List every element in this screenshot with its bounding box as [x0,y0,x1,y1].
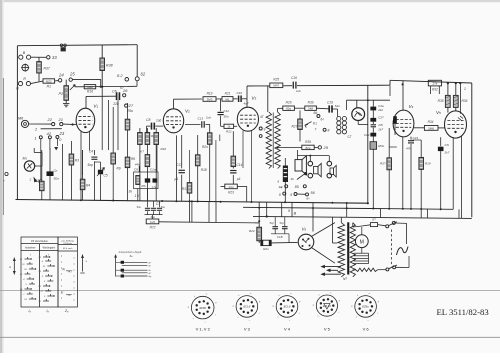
svg-text:R72: R72 [150,226,156,230]
svg-text:R38: R38 [106,64,113,68]
resistor R14 [146,145,148,155]
motor M [355,235,368,248]
wire plate supply line [247,85,270,87]
svg-text:R17: R17 [182,187,188,191]
capacitor C18 wire [271,233,289,235]
svg-text:25: 25 [69,72,75,77]
capacitor C23 [410,137,412,140]
capacitor C4 [93,150,95,155]
wire V5 bottom [452,138,454,209]
svg-text:2k2: 2k2 [377,108,383,112]
svg-text:ECL8: ECL8 [244,305,251,309]
svg-text:R34: R34 [428,120,434,124]
svg-text:1ub: 1ub [206,116,211,120]
resistor R20 [209,124,211,132]
terminal 62 [135,77,139,81]
resistor R8b [125,119,130,130]
svg-text:21: 21 [58,117,63,122]
left edge terminal [5,172,8,175]
pickup head M1 [24,161,34,171]
svg-text:B: B [294,210,297,215]
svg-text:C1B: C1B [277,235,283,239]
svg-text:C16: C16 [291,76,297,80]
svg-text:5cp: 5cp [270,221,275,225]
svg-text:V 1, V 2: V 1, V 2 [196,327,211,332]
arrow symbol right of table [82,255,84,272]
resistor R22 [221,125,224,127]
wire right border [471,83,473,217]
wire V4 bottom left [402,137,404,209]
capacitor C22 [370,133,376,137]
power transformer primary [338,223,345,277]
wire column a [62,144,64,200]
capacitor C8 [147,125,151,127]
svg-text:6<: 6< [307,197,311,201]
svg-text:5: 5 [290,193,292,197]
page rule upper [0,289,500,291]
tube V5 [445,111,467,138]
power transformer secondary [350,223,355,277]
svg-text:5k8: 5k8 [308,107,313,111]
svg-text:Ar: Ar [148,269,151,272]
svg-text:0: 0 [279,193,281,197]
svg-text:4ou: 4ou [151,215,156,219]
svg-text:S?: S? [372,218,376,222]
wire V4 anode up [402,81,404,111]
resistor R32 [428,80,441,86]
wire V1 anode up [85,96,87,108]
wire primary top stub [340,217,342,223]
junction right top [459,82,461,84]
svg-text:1k: 1k [227,125,231,129]
resistor R15 [154,133,159,145]
page rule lower [0,336,500,338]
svg-text:EF86: EF86 [199,306,206,310]
svg-text:ECL8: ECL8 [284,305,291,309]
svg-text:C12: C12 [224,109,230,113]
head diagram lines [122,261,148,263]
svg-text:R39: R39 [305,140,311,144]
resistor R18 [197,135,199,155]
wire V3 bottom [242,131,244,168]
svg-text:V1: V1 [93,103,98,108]
svg-text:52o: 52o [335,104,340,108]
terminal 25 [69,78,72,81]
svg-text:R25: R25 [273,78,279,82]
svg-text:M: M [360,239,364,245]
svg-text:EZ8o: EZ8o [362,305,369,309]
svg-text:R3b: R3b [308,101,314,105]
tube V1 [76,108,95,132]
svg-text:4: 4 [281,185,283,189]
svg-text:5ou: 5ou [137,205,142,209]
svg-text:R37: R37 [44,67,50,71]
capacitor C14 [232,167,234,169]
svg-text:R4: R4 [86,184,90,188]
resistor R37 [38,57,40,61]
resistor R2b [232,131,234,156]
svg-text:27k: 27k [377,123,383,127]
svg-text:C10: C10 [237,91,243,95]
wire R38 column down [101,87,103,150]
svg-text:µ1: µ1 [175,177,179,181]
capacitor C20 [49,148,51,172]
svg-text:A: A [8,265,11,269]
svg-text:47b: 47b [406,146,411,150]
svg-text:9: 9 [288,209,290,213]
terminal 21 [60,123,63,126]
resistor RNo box [370,142,377,150]
ground shield symbol [22,64,29,71]
wire RD to R1 [31,81,43,84]
resistor R33 [420,140,422,157]
svg-text:V6: V6 [302,227,307,232]
svg-text:M1: M1 [225,97,229,101]
svg-text:R22: R22 [226,130,232,134]
svg-text:K1: K1 [313,122,318,126]
svg-text:V 5: V 5 [324,327,331,332]
svg-text:82a: 82a [305,146,310,150]
table contact glyphs [25,258,31,260]
svg-text:8: 8 [328,129,330,133]
svg-text:M6: M6 [18,117,24,121]
bus junction dots [80,199,82,201]
heater winding resistor [356,268,378,271]
wire column c [215,140,217,202]
svg-text:R23: R23 [228,190,234,194]
resistor R4 [82,150,84,175]
svg-text:8.2: 8.2 [117,73,123,78]
svg-text:62: 62 [141,72,146,77]
wire from terminal 27 [108,100,110,150]
svg-text:M47: M47 [273,84,279,88]
mains switch lower [386,268,389,271]
svg-text:µ1: µ1 [237,177,241,181]
capacitor C17 [181,135,183,168]
svg-text:EL 3511/82-83: EL 3511/82-83 [437,307,489,317]
tube socket V1 V2 [191,296,214,319]
resistor R26 [283,106,295,110]
svg-text:V2: V2 [185,108,190,113]
svg-text:M1: M1 [23,157,28,161]
mains switch upper [386,225,389,228]
capacitor C10e [153,178,158,182]
wire drop to terminal 62 [136,45,138,77]
wire bus B [243,207,453,209]
table switch positions [21,237,58,307]
capacitor C19 [328,105,330,112]
tube V2 [163,109,183,133]
terminal 33 [47,56,50,59]
wire V6 to transformer bottom [312,248,335,264]
capacitor C9 [145,178,150,182]
svg-text:R19: R19 [425,162,431,166]
wire main bus [16,200,368,204]
svg-text:82a: 82a [286,107,291,111]
wire V1 grid left [63,123,72,125]
capacitor C9 group box [138,166,140,172]
wire lamp bottom [357,121,359,125]
svg-text:V 6: V 6 [363,327,370,332]
svg-text:25o: 25o [126,109,133,113]
loudspeaker LS2 small [314,166,318,173]
svg-text:7: 7 [315,128,317,132]
resistor R34 [414,127,424,129]
resistor R1 [43,79,55,83]
arrow tap 2 [330,269,339,271]
svg-text:C5: C5 [104,174,108,178]
svg-text:4.19cm/s: 4.19cm/s [63,243,73,245]
svg-text:R27: R27 [292,125,298,129]
potentiometer R27 [299,110,301,118]
resistor R35 [447,83,449,95]
svg-text:22: 22 [47,117,53,122]
terminal 82 [125,78,129,82]
arrow tap 1 [324,266,341,268]
tube V6 rectifier [298,234,314,250]
svg-text:27: 27 [128,103,134,108]
mains cord squiggle [397,247,409,256]
dashed switch link [391,230,393,267]
svg-text:V 4: V 4 [284,327,291,332]
capacitor C12 [220,99,222,111]
resistor chain R19 R21 C15 [203,97,216,102]
svg-text:85: 85 [295,185,299,189]
svg-text:Cp: Cp [54,169,58,173]
resistor R29 [278,146,302,148]
svg-text:R1: R1 [47,85,51,89]
svg-text:1ub: 1ub [156,119,162,123]
svg-text:Wiedergabe: Wiedergabe [43,247,56,250]
resistor R12 [146,219,159,224]
svg-text:29: 29 [323,145,329,150]
tube socket V6 [355,296,377,318]
aerial connector on top line [60,44,63,47]
wire supply drop to bus A corner [367,85,369,203]
svg-text:C6: C6 [112,90,117,94]
svg-text:R2: R2 [35,179,39,183]
svg-text:13o: 13o [228,185,233,189]
svg-text:5M6: 5M6 [428,126,434,130]
tube V3 [237,107,258,131]
scan left edge strip [0,0,2,353]
svg-text:42: 42 [47,131,52,136]
resistor R3 [70,141,72,154]
svg-text:R24: R24 [249,229,255,233]
svg-text:Al: Al [148,264,151,267]
terminal 22 [52,123,55,126]
ground P2 [63,103,69,105]
wire V2 bottom [175,135,177,201]
capacitor column C2a [372,100,374,106]
svg-text:L2: L2 [348,135,352,139]
inductor L2 [337,117,341,121]
jack sockets [308,161,313,166]
resistor R8 [146,128,148,133]
switch contacts lower [297,174,304,179]
svg-text:M22: M22 [87,85,93,89]
svg-text:R18: R18 [201,168,207,172]
potentiometer P2 [65,80,67,86]
svg-text:1uk: 1uk [296,89,301,93]
svg-text:C19: C19 [327,101,333,105]
tube V4 [393,110,414,137]
svg-text:C23: C23 [413,136,419,140]
svg-text:4u7: 4u7 [244,102,249,106]
svg-text:R9: R9 [117,167,121,171]
svg-text:27k: 27k [432,82,437,86]
svg-text:1 0: 1 0 [135,194,140,198]
svg-text:Aufnahme: Aufnahme [25,247,36,250]
wire V1 bottom pin [89,131,91,150]
switch arrow K1 [305,122,312,128]
resistor R5 [112,107,114,153]
arrow tap 3 [324,273,341,275]
head diagram arrow [115,256,117,277]
terminal B pair [19,55,23,59]
svg-text:V5: V5 [436,110,441,115]
output transformer primary [266,112,271,169]
svg-text:2: 2 [29,178,32,182]
wire transformer top to R26 [277,108,279,112]
svg-text:R16: R16 [87,90,93,94]
svg-text:(4): (4) [62,268,65,271]
svg-text:R36: R36 [462,99,468,103]
terminal 29 [318,146,321,149]
svg-text:47k: 47k [141,184,146,188]
svg-text:5ou: 5ou [161,205,166,209]
tube socket V5 [316,295,337,316]
resistor R20b [261,240,271,245]
stub wires under R32 [430,86,432,94]
svg-text:1u5: 1u5 [150,220,155,224]
power transformer core [347,222,349,274]
wire R38 branch [101,45,103,59]
svg-text:R35: R35 [438,99,444,103]
svg-text:M22: M22 [46,79,52,83]
resistor R24 [258,202,260,227]
table speed [58,237,77,307]
svg-text:R21: R21 [225,92,231,96]
wire supply to primary [267,85,269,112]
svg-text:33: 33 [52,55,57,60]
terminal 9 [259,127,262,130]
wire V2 anode up [173,99,175,109]
wire feedback row [159,222,259,223]
terminal 27 [125,104,128,107]
svg-text:5op: 5op [88,163,94,167]
wire bus C [253,216,472,218]
junction dots on supply line [402,83,404,85]
resistor R36 [455,83,457,95]
fuse S7 [370,223,377,227]
resistor R2 [41,150,43,180]
svg-text:V4: V4 [409,104,414,109]
svg-text:3M3: 3M3 [207,97,213,101]
svg-text:1: 1 [35,137,37,141]
input jack M6 [21,120,28,127]
svg-text:Pd Verschieben: Pd Verschieben [31,240,48,243]
svg-text:2k7: 2k7 [444,151,450,155]
resistor R25 [270,83,283,88]
wire V3 top [246,99,248,108]
comb verticals below bus [266,202,268,216]
wire from terminal 26 [117,100,119,150]
loudspeaker LS3 small [330,168,334,174]
svg-text:V 3: V 3 [244,327,251,332]
svg-text:30o: 30o [224,115,229,119]
resistor R7 [139,128,141,133]
capacitor C16 [292,82,294,89]
terminal 6b [317,115,320,118]
indicator lamp K2 [352,108,365,121]
svg-text:1: 1 [464,87,466,91]
svg-text:C9: C9 [134,168,138,172]
wire primary mid tap [331,217,333,243]
tube socket V4 [276,296,298,318]
svg-text:C4: C4 [89,150,93,154]
svg-text:C8: C8 [146,118,150,122]
terminal 24 [58,79,61,82]
svg-text:R2o: R2o [202,145,208,149]
svg-text:R6: R6 [131,157,135,161]
wire top-left horizontal [17,45,137,46]
wire grid line y100 [347,99,391,101]
svg-text:C17: C17 [176,163,182,167]
svg-text:5Do: 5Do [54,177,60,181]
svg-text:N?: N? [343,277,347,281]
svg-text:V3: V3 [251,96,256,101]
svg-text:RNo: RNo [378,144,384,148]
svg-text:9: 9 [264,128,266,132]
output transformer secondary [275,112,280,169]
transformer tap comb [354,252,369,254]
resistor R30 [305,106,317,110]
terminal 26 [123,94,126,97]
wire A16 row [75,85,137,88]
svg-text:44b: 44b [135,163,140,167]
svg-text:5cp: 5cp [280,221,285,225]
capacitor C6 [116,92,118,100]
svg-text:R32: R32 [432,88,438,92]
svg-text:C14: C14 [237,163,243,167]
scan top edge strip [0,0,500,2]
wire jack feeds [298,155,330,157]
svg-text:3o: 3o [129,190,133,194]
arrow symbol A [13,258,15,275]
wire main left border [16,46,18,200]
svg-text:R2o: R2o [263,247,269,251]
capacitor C5 trimmer [98,170,103,175]
verticals to feedback row [189,201,191,222]
resistor R17 [189,150,191,183]
resistor R1b [136,176,140,185]
svg-text:C13: C13 [198,117,204,121]
capacitor C13 [185,123,201,125]
svg-text:EM,34: EM,34 [323,304,331,308]
terminal R D pair [18,82,22,86]
output transformer core [272,113,274,169]
capacitor C21 dark [393,116,397,124]
svg-text:6?: 6? [120,86,124,90]
resistor R6 [127,103,129,119]
svg-text:23: 23 [59,131,65,136]
terminal below M1 [39,180,42,183]
loudspeaker LS1 [295,160,302,171]
wire V5 top right pin [459,83,461,114]
resistor A16 [84,85,96,89]
svg-text:24: 24 [58,72,64,77]
